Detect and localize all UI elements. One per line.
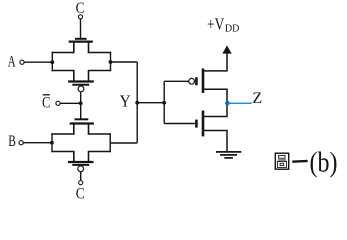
bubble M4 gate [78, 166, 84, 172]
node inverter input dot [162, 101, 166, 105]
wire M2 right leg [88, 71, 90, 82]
wire TG1 top edge left [52, 52, 75, 54]
bubble Q1 gate (PMOS) [189, 78, 195, 84]
terminal Cbar [56, 101, 60, 105]
wire TG2 bottom edge left [51, 151, 74, 153]
terminal B [19, 141, 23, 145]
transistor M3 gate bar [75, 118, 89, 120]
node TG1 right dot [109, 60, 113, 64]
wire TG2 right rail [109, 133, 111, 152]
wire TG2 top edge left [51, 133, 74, 135]
wire B input [23, 142, 52, 144]
wire TG2 bottom edge right [88, 151, 111, 153]
wire TG2 output to Y column [110, 142, 137, 144]
wire TG1 right rail [110, 52, 112, 71]
wire M4 right leg [88, 152, 90, 163]
overline of Cbar [43, 94, 50, 96]
transistor Q2 gate bar [195, 120, 198, 128]
glyph 圖 inner top square [279, 155, 285, 158]
bubble M2 gate [78, 86, 84, 92]
svg-text:A: A [8, 54, 16, 71]
glyph 一 [292, 160, 307, 163]
wire PMOS gate lead [164, 80, 189, 82]
transistor Q1 gate bar [195, 77, 198, 85]
wire M1 right leg [88, 42, 90, 54]
glyph 圖 inner center [280, 163, 284, 165]
svg-text:B: B [8, 133, 16, 150]
wire TG2 left rail [51, 133, 53, 152]
transistor M4 channel bar [68, 161, 94, 163]
svg-text:DD: DD [225, 23, 240, 34]
wire Q1 drain lead [203, 89, 227, 103]
wire M4 left leg (TG2 bottom PMOS) [73, 152, 75, 163]
wire TG2 top edge right [88, 133, 111, 135]
wire Q1 source lead to VDD [203, 53, 227, 71]
svg-text:(b): (b) [310, 147, 338, 179]
transistor Q2 channel bar [202, 111, 205, 137]
glyph 圖 inner bottom square [277, 162, 286, 168]
svg-text:C: C [76, 186, 85, 203]
transistor M4 gate bar [72, 164, 89, 166]
wire M2 left leg (TG1 bottom PMOS) [73, 71, 75, 82]
wire M4 gate lead down [80, 172, 82, 181]
transistor M1 gate bar (TG1 top NMOS) [75, 38, 87, 40]
wire TG1 output to Y column [111, 61, 138, 63]
wire C lead down [80, 19, 82, 39]
svg-text:+V: +V [207, 14, 225, 33]
svg-text:Y: Y [120, 92, 131, 111]
wire TG1 bottom edge right [88, 70, 111, 72]
label figure caption 圖一(b) [275, 153, 307, 169]
wire Y horizontal [137, 102, 164, 104]
node Y dot [135, 101, 139, 105]
wire M2 gate lead down [80, 92, 82, 104]
node Z output dot (blue) [225, 101, 230, 106]
transistor M3 channel bar [70, 122, 94, 124]
wire M3 right leg [88, 124, 90, 135]
wire NMOS gate lead [164, 123, 195, 125]
terminal A [20, 60, 24, 64]
terminal C bottom [79, 181, 83, 185]
wire Q2 source lead to ground [203, 131, 227, 152]
wire M1 left leg [73, 42, 75, 54]
svg-text:C: C [42, 94, 50, 111]
ground [216, 152, 241, 158]
node B junction dot [50, 141, 54, 145]
wire TG1 left rail [51, 52, 53, 71]
wire Cbar [60, 102, 81, 104]
glyph 圖 outer box [275, 153, 288, 169]
transistor M1 channel bar [69, 40, 93, 42]
wire inverter input vertical [163, 81, 165, 123]
wire M3 gate lead down (TG2 top NMOS) [80, 103, 82, 119]
wire Y vertical [136, 62, 138, 143]
wire A input [24, 61, 52, 63]
wire TG1 bottom edge left [52, 70, 75, 72]
node Cbar junction dot [79, 101, 83, 105]
glyph 圖 inner middle stroke [278, 159, 286, 161]
wire TG1 top edge right [88, 52, 111, 54]
terminal C top [78, 15, 82, 19]
node A junction dot [50, 60, 54, 64]
wire M3 left leg [73, 124, 75, 135]
transistor M2 channel bar [68, 80, 94, 82]
arrow VDD [222, 45, 231, 53]
transistor M2 gate bar [72, 84, 89, 86]
svg-text:Z: Z [252, 90, 262, 107]
wire Z output (blue) [230, 102, 252, 104]
wire Q2 drain lead (NMOS) [203, 103, 227, 117]
transistor Q1 channel bar [202, 69, 205, 93]
